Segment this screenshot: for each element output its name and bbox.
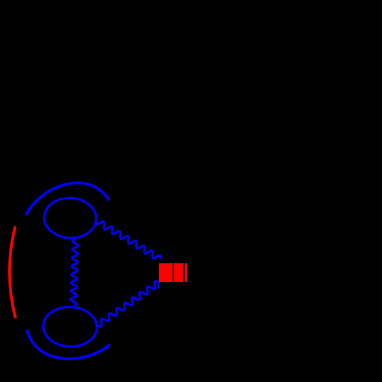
lower fermion loop bbox=[42, 306, 97, 348]
vertical photon bbox=[71, 239, 79, 306]
upper fermion loop bbox=[43, 197, 97, 240]
counterterm box bbox=[159, 263, 173, 282]
upper photon bbox=[96, 221, 161, 260]
red left arc bbox=[9, 228, 15, 317]
bottom arc bbox=[27, 331, 109, 359]
top arc bbox=[26, 183, 108, 214]
lower photon bbox=[98, 281, 159, 326]
